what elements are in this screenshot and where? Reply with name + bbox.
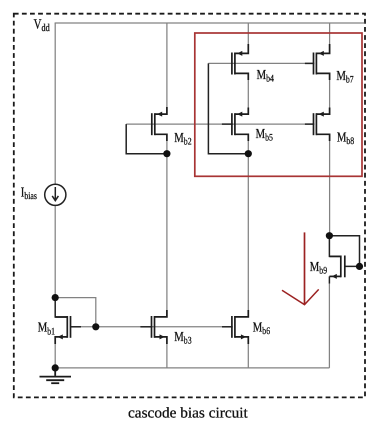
transistor Mb8 bbox=[314, 108, 330, 142]
current source Ibias bbox=[45, 184, 66, 205]
wire Vdd to Ibias bbox=[54, 23, 56, 184]
junction ground node bbox=[52, 364, 59, 371]
wire Mb3 source to bottom rail bbox=[166, 337, 168, 368]
junction Mb9 gate bbox=[356, 263, 363, 270]
transistor Mb4 bbox=[232, 44, 248, 80]
junction node B bbox=[326, 232, 333, 239]
wire Mb9 gate loop bbox=[329, 236, 359, 267]
junction Mb2 drain bbox=[163, 150, 170, 157]
transistor Mb6 bbox=[232, 310, 248, 344]
label Mb8 bbox=[337, 130, 354, 148]
annotation red arrow bbox=[282, 232, 319, 304]
wire Vdd top rail bbox=[55, 22, 365, 24]
wire Mb1 gate stub bbox=[71, 326, 82, 328]
wire Mb6 gate stub bbox=[222, 326, 233, 328]
label Mb3 bbox=[174, 329, 191, 347]
junction Mb1 gate bbox=[92, 323, 99, 330]
node Ibias label bbox=[21, 185, 37, 203]
wire bottom gate net Mb1-Mb3-Mb6 bbox=[71, 326, 232, 328]
node Vdd label bbox=[34, 17, 51, 34]
label Mb6 bbox=[253, 320, 270, 338]
wire Mb1 source to ground node bbox=[54, 337, 56, 368]
transistor Mb5 bbox=[232, 108, 248, 142]
wire Vdd to Mb2 source bbox=[166, 23, 168, 114]
wire Mb2 drain to Mb3 drain bbox=[166, 134, 168, 317]
wire Vdd to Mb4 source bbox=[247, 23, 249, 53]
label Mb2 bbox=[174, 130, 191, 148]
junction Mb5 drain bbox=[245, 150, 252, 157]
label Mb4 bbox=[257, 67, 274, 85]
wire Mb7 gate stub bbox=[305, 62, 314, 64]
wire Mb2 gate-drain loop bbox=[126, 124, 167, 154]
ground bbox=[40, 368, 72, 383]
wire Mb4 drain to Mb5 source bbox=[247, 73, 249, 114]
wire Mb9 source to bottom rail bbox=[328, 283, 330, 368]
label Mb5 bbox=[256, 126, 273, 144]
junction node A bbox=[52, 294, 59, 301]
wire Mb9 source stub bbox=[328, 276, 330, 283]
transistor Mb7 bbox=[314, 44, 330, 80]
wire Mb5 gate stub bbox=[222, 123, 233, 125]
wire gate net Mb2-Mb5-Mb8 bbox=[126, 123, 313, 125]
wire Mb8 gate stub bbox=[305, 123, 314, 125]
wire Mb7 drain to Mb8 source bbox=[329, 73, 331, 114]
annotation red box bbox=[195, 33, 362, 176]
transistor Mb1 bbox=[55, 316, 70, 344]
wire Mb3 gate stub bbox=[140, 326, 152, 328]
transistor Mb3 bbox=[152, 310, 167, 344]
wire node A to Mb1 drain bbox=[55, 298, 66, 317]
wire Mb6 source to bottom rail bbox=[247, 337, 249, 368]
transistor Mb9 bbox=[329, 256, 344, 278]
wire Mb4 gate loop to Mb5 drain bbox=[208, 63, 248, 153]
transistor Mb2 bbox=[152, 107, 167, 141]
wire Mb5 drain to Mb6 drain bbox=[247, 134, 249, 317]
svg-text:cascode bias circuit: cascode bias circuit bbox=[128, 406, 249, 422]
label Mb9 bbox=[310, 259, 327, 277]
wire Ibias to node A bbox=[54, 206, 56, 298]
wire bottom rail bbox=[55, 367, 329, 369]
wire node B to Mb9 drain bbox=[329, 236, 340, 257]
wire node A to Mb1 gate loop bbox=[55, 298, 96, 327]
caption: cascode bias circuit bbox=[128, 406, 249, 422]
wire Vdd to Mb7 source bbox=[329, 23, 331, 53]
label Mb1 bbox=[38, 320, 55, 338]
wire Mb8 drain to node B bbox=[329, 134, 331, 235]
label Mb7 bbox=[336, 68, 353, 86]
wire gate net Mb4-Mb7 bbox=[208, 62, 313, 64]
